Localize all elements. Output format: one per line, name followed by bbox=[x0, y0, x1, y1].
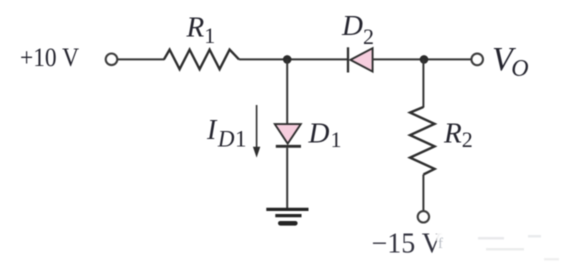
svg-text:+10 V: +10 V bbox=[20, 43, 79, 72]
label D1 bbox=[308, 118, 342, 153]
diode D1 cathode bar bbox=[276, 145, 301, 148]
label +10 V bbox=[20, 43, 79, 72]
terminal VO bbox=[471, 54, 483, 66]
label R1 bbox=[186, 12, 216, 49]
svg-text:R1: R1 bbox=[186, 12, 216, 49]
current arrow I_D1 bbox=[253, 105, 260, 158]
resistor R1 bbox=[164, 50, 239, 70]
diode D2 cathode bar bbox=[347, 47, 349, 72]
node A junction dot bbox=[283, 55, 292, 64]
svg-text:R2: R2 bbox=[443, 117, 473, 152]
wire left horizontal bbox=[118, 58, 165, 60]
wire R2 to terminal bbox=[422, 175, 424, 212]
wire R1 to D2 bbox=[239, 58, 347, 60]
wire node B down to R2 bbox=[422, 59, 424, 107]
terminal +10 V bbox=[106, 54, 118, 66]
node B junction dot bbox=[420, 55, 429, 64]
terminal -15 V bbox=[418, 211, 429, 222]
wire node A down to D1 bbox=[286, 59, 288, 124]
watermark smudge bbox=[429, 227, 559, 261]
svg-text:D1: D1 bbox=[308, 118, 342, 153]
label I_D1 bbox=[206, 115, 246, 152]
svg-text:f: f bbox=[438, 236, 443, 252]
wire D1 to ground bbox=[286, 148, 288, 208]
svg-text:VO: VO bbox=[492, 41, 529, 82]
diode D2 bbox=[350, 48, 372, 71]
label VO bbox=[492, 41, 529, 82]
resistor R2 bbox=[410, 107, 435, 175]
svg-text:D2: D2 bbox=[341, 10, 374, 49]
wire D2 to VO bbox=[373, 58, 472, 60]
label -15 V bbox=[372, 229, 443, 260]
ground bbox=[266, 209, 308, 223]
diode D1 bbox=[275, 124, 301, 144]
svg-text:ID1: ID1 bbox=[206, 115, 246, 152]
label D2 bbox=[341, 10, 374, 49]
label R2 bbox=[443, 117, 473, 152]
